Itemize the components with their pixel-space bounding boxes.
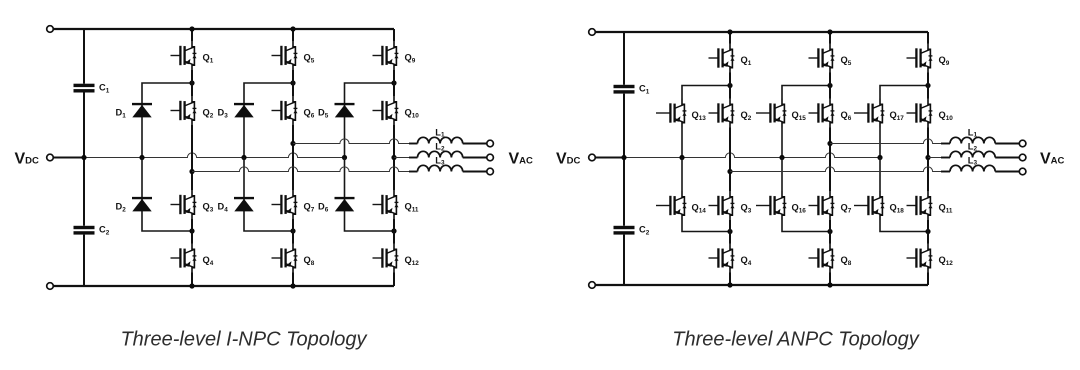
junction clamp Q18 at leg 3 (right) [925, 229, 930, 234]
wire phase C (left) [394, 157, 409, 159]
svg-text:Q8: Q8 [841, 255, 852, 267]
inductor L2 (left) [418, 142, 463, 158]
wire VDC terminal to capacitor string (left) [53, 157, 84, 159]
node DC+ terminal (left) [47, 26, 54, 33]
transistor Q15 [756, 99, 806, 128]
node AC terminal (right) [1019, 140, 1026, 147]
wire leg 3 segment (left) [393, 70, 395, 96]
wire (left) [409, 143, 418, 145]
wire capacitor branch upper (right) [623, 32, 625, 85]
junction clamp Q14 at leg 1 (right) [727, 229, 732, 234]
junction leg 2 bottom rail (right) [827, 282, 832, 287]
wire neutral midpoint bus (left) [84, 153, 345, 158]
wire (right) [941, 143, 950, 145]
capacitor C2 (right) [614, 225, 650, 237]
wire clamp Q14 from midpoint (right) [681, 158, 683, 192]
wire leg 1 segment (left) [191, 29, 193, 41]
wire (right) [995, 157, 1019, 159]
transistor Q14 [656, 191, 706, 220]
junction clamp D5 at leg 3 (left) [391, 80, 396, 85]
transistor Q8 [272, 244, 315, 273]
transistor Q4 [709, 244, 752, 273]
wire leg 3 segment (left) [393, 219, 395, 244]
inductor L1 (left) [418, 128, 463, 144]
wire clamp Q15 to midpoint (right) [781, 128, 783, 158]
svg-text:C1: C1 [639, 84, 650, 96]
junction phase A output at leg 1 (right) [727, 169, 732, 174]
svg-text:Q10: Q10 [405, 108, 420, 120]
svg-text:Q16: Q16 [792, 203, 807, 215]
svg-text:Q6: Q6 [304, 108, 315, 120]
junction clamp Q17 at leg 3 (right) [925, 83, 930, 88]
transistor Q17 [854, 99, 904, 128]
svg-text:L3: L3 [435, 156, 445, 167]
diode D6 [318, 198, 355, 213]
node DC+ terminal (right) [589, 29, 596, 36]
transistor Q1 [709, 44, 752, 73]
junction clamp D6 at leg 3 (left) [391, 228, 396, 233]
node DC- terminal (right) [589, 282, 596, 289]
svg-text:Q4: Q4 [741, 255, 752, 267]
svg-text:VDC: VDC [15, 150, 40, 167]
svg-text:Q12: Q12 [939, 255, 954, 267]
wire clamp diode D1 branch to upper node (leg 1 left) [142, 83, 192, 158]
node DC- terminal (left) [47, 283, 54, 290]
wire clamp Q15 branch to upper node (leg 2 right) [782, 86, 830, 99]
transistor Q9 [907, 44, 950, 73]
wire capacitor branch lower (left) [83, 235, 85, 286]
svg-text:Q4: Q4 [203, 255, 214, 267]
node AC terminal (left) [487, 168, 494, 175]
junction clamp column at midpoint (right) [679, 155, 684, 160]
transistor Q7 [272, 190, 315, 219]
transistor Q7 [809, 191, 852, 220]
transistor Q4 [171, 244, 214, 273]
wire leg 1 segment (left) [191, 125, 193, 190]
svg-text:Three-level I-NPC Topology: Three-level I-NPC Topology [120, 329, 367, 351]
svg-text:L3: L3 [968, 156, 978, 167]
wire leg 2 segment (left) [292, 219, 294, 244]
junction leg 1 top rail (right) [727, 29, 732, 34]
wire leg 3 segment (right) [927, 73, 929, 99]
transistor Q6 [809, 99, 852, 128]
wire phase B (left) [293, 139, 409, 144]
svg-text:Q7: Q7 [304, 202, 315, 214]
wire leg 1 segment (right) [729, 220, 731, 244]
svg-text:Q3: Q3 [203, 202, 214, 214]
wire leg 3 segment (left) [393, 29, 395, 41]
wire clamp diode D3 branch to upper node (leg 2 left) [244, 83, 293, 158]
svg-text:D2: D2 [116, 202, 127, 214]
wire capacitor branch middle (right) [623, 94, 625, 226]
wire leg 2 segment (left) [292, 70, 294, 96]
wire leg 3 segment (left) [393, 273, 395, 287]
node AC terminal (left) [487, 140, 494, 147]
wire neutral midpoint bus (right) [624, 153, 880, 158]
wire capacitor branch lower (right) [623, 235, 625, 285]
wire (left) [463, 143, 487, 145]
wire clamp diode D5 branch to upper node (leg 3 left) [345, 83, 395, 158]
junction phase C output at leg 3 (right) [925, 155, 930, 160]
junction leg 1 bottom rail (right) [727, 282, 732, 287]
node VDC terminal (right) [589, 154, 596, 161]
svg-text:D6: D6 [318, 202, 329, 214]
svg-text:Q7: Q7 [841, 203, 852, 215]
wire phase A (right) [730, 167, 941, 172]
wire clamp Q13 branch to upper node (leg 1 right) [682, 86, 730, 99]
wire leg 2 segment (left) [292, 273, 294, 287]
diode D1 [116, 104, 153, 119]
svg-text:Q9: Q9 [939, 55, 950, 67]
svg-text:Q13: Q13 [692, 110, 707, 122]
junction clamp D3 at midpoint (left) [241, 155, 246, 160]
transistor Q2 [709, 99, 752, 128]
wire leg 3 segment (right) [927, 220, 929, 244]
wire (left) [463, 171, 487, 173]
wire clamp Q17 to midpoint (right) [879, 128, 881, 158]
transistor Q3 [171, 190, 214, 219]
diode D4 [218, 198, 255, 213]
svg-text:VAC: VAC [509, 150, 534, 167]
inductor L1 (right) [950, 128, 995, 144]
wire top DC rail (left) [53, 28, 394, 30]
junction leg 1 bottom rail (left) [189, 283, 194, 288]
wire clamp Q18 from midpoint (right) [879, 158, 881, 192]
svg-text:VDC: VDC [556, 150, 581, 167]
wire bottom DC rail (right) [595, 284, 928, 286]
wire phase B (right) [830, 139, 941, 144]
svg-text:L1: L1 [435, 128, 445, 139]
wire (right) [941, 171, 950, 173]
svg-text:Three-level ANPC Topology: Three-level ANPC Topology [672, 329, 919, 351]
transistor Q8 [809, 244, 852, 273]
node AC terminal (left) [487, 154, 494, 161]
svg-text:L2: L2 [435, 142, 445, 153]
svg-text:D1: D1 [116, 108, 127, 120]
svg-text:C1: C1 [99, 83, 110, 95]
junction clamp D1 at midpoint (left) [139, 155, 144, 160]
junction clamp D4 at leg 2 (left) [290, 228, 295, 233]
junction clamp Q15 at leg 2 (right) [827, 83, 832, 88]
svg-text:Q1: Q1 [203, 53, 214, 65]
transistor Q9 [373, 41, 416, 70]
wire leg 1 segment (left) [191, 219, 193, 244]
capacitor C1 (left) [74, 83, 110, 95]
wire (right) [995, 143, 1019, 145]
junction leg 2 bottom rail (left) [290, 283, 295, 288]
wire leg 3 segment (right) [927, 273, 929, 286]
transistor Q18 [854, 191, 904, 220]
capacitor C2 (left) [74, 225, 110, 237]
inductor L2 (right) [950, 142, 995, 158]
svg-text:Q14: Q14 [692, 203, 707, 215]
wire (left) [409, 171, 418, 173]
svg-text:Q15: Q15 [792, 110, 807, 122]
node VDC terminal (left) [47, 154, 54, 161]
wire leg 2 segment (right) [829, 273, 831, 286]
wire leg 3 segment (left) [393, 125, 395, 190]
wire leg 3 segment (right) [927, 128, 929, 192]
wire clamp Q14 branch to lower node (leg 1 right) [682, 220, 730, 232]
wire (right) [941, 157, 950, 159]
wire leg 2 segment (right) [829, 128, 831, 192]
transistor Q13 [656, 99, 706, 128]
svg-text:Q11: Q11 [405, 202, 419, 214]
junction clamp D5 at midpoint (left) [342, 155, 347, 160]
transistor Q11 [373, 190, 419, 219]
wire leg 1 segment (right) [729, 273, 731, 286]
wire bottom DC rail (left) [53, 285, 394, 287]
svg-text:Q8: Q8 [304, 255, 315, 267]
junction clamp D3 at leg 2 (left) [290, 80, 295, 85]
transistor Q12 [373, 244, 420, 273]
junction clamp Q16 at leg 2 (right) [827, 229, 832, 234]
wire clamp Q17 branch to upper node (leg 3 right) [880, 86, 928, 99]
svg-text:D5: D5 [318, 108, 329, 120]
junction clamp column at midpoint (right) [877, 155, 882, 160]
transistor Q12 [907, 244, 954, 273]
wire clamp Q13 to midpoint (right) [681, 128, 683, 158]
svg-text:D4: D4 [218, 202, 229, 214]
wire (right) [995, 171, 1019, 173]
junction leg 2 top rail (left) [290, 26, 295, 31]
transistor Q11 [907, 191, 953, 220]
wire leg 2 segment (right) [829, 220, 831, 244]
wire clamp diode D2 branch to lower node (leg 1 left) [142, 158, 192, 232]
wire clamp Q16 branch to lower node (leg 2 right) [782, 220, 830, 232]
wire capacitor branch middle (left) [83, 93, 85, 226]
wire clamp diode D6 branch to lower node (leg 3 left) [345, 158, 395, 232]
svg-text:Q1: Q1 [741, 55, 752, 67]
wire leg 2 segment (left) [292, 29, 294, 41]
node AC terminal (right) [1019, 154, 1026, 161]
transistor Q16 [756, 191, 806, 220]
transistor Q3 [709, 191, 752, 220]
junction midpoint x capacitor string (right) [621, 155, 626, 160]
junction phase A output at leg 1 (left) [189, 169, 194, 174]
wire leg 2 segment (right) [829, 32, 831, 44]
junction phase B output at leg 2 (right) [827, 141, 832, 146]
svg-text:Q5: Q5 [841, 55, 852, 67]
svg-text:Q2: Q2 [741, 110, 752, 122]
diode D5 [318, 104, 355, 119]
junction leg 2 top rail (right) [827, 29, 832, 34]
wire capacitor branch upper (left) [83, 29, 85, 84]
diode D3 [218, 104, 255, 119]
inductor L3 (right) [950, 156, 995, 172]
svg-text:Q10: Q10 [939, 110, 954, 122]
wire leg 1 segment (right) [729, 32, 731, 44]
transistor Q6 [272, 96, 315, 125]
junction leg 1 top rail (left) [189, 26, 194, 31]
svg-text:C2: C2 [99, 225, 110, 237]
svg-text:Q17: Q17 [890, 110, 905, 122]
svg-text:Q3: Q3 [741, 203, 752, 215]
transistor Q10 [373, 96, 420, 125]
svg-text:Q2: Q2 [203, 108, 214, 120]
wire clamp Q18 branch to lower node (leg 3 right) [880, 220, 928, 232]
wire leg 1 segment (left) [191, 273, 193, 287]
inductor L3 (left) [418, 156, 463, 172]
wire leg 1 segment (right) [729, 73, 731, 99]
svg-text:L2: L2 [968, 142, 978, 153]
wire (left) [409, 157, 418, 159]
node AC terminal (right) [1019, 168, 1026, 175]
svg-text:Q18: Q18 [890, 203, 905, 215]
wire phase A (left) [192, 167, 409, 172]
junction phase B output at leg 2 (left) [290, 141, 295, 146]
svg-text:C2: C2 [639, 225, 650, 237]
svg-text:Q9: Q9 [405, 53, 416, 65]
svg-text:Q5: Q5 [304, 53, 315, 65]
junction clamp D2 at leg 1 (left) [189, 228, 194, 233]
wire VDC terminal to capacitor string (right) [595, 157, 624, 159]
svg-text:Q11: Q11 [939, 203, 953, 215]
junction midpoint x capacitor string (left) [81, 155, 86, 160]
junction clamp Q13 at leg 1 (right) [727, 83, 732, 88]
wire clamp diode D4 branch to lower node (leg 2 left) [244, 158, 293, 232]
svg-text:Q12: Q12 [405, 255, 420, 267]
wire top DC rail (right) [595, 31, 928, 33]
wire leg 2 segment (right) [829, 73, 831, 99]
wire leg 1 segment (right) [729, 128, 731, 192]
junction clamp column at midpoint (right) [779, 155, 784, 160]
transistor Q10 [907, 99, 954, 128]
junction clamp D1 at leg 1 (left) [189, 80, 194, 85]
wire phase C (right) [928, 157, 941, 159]
wire leg 3 segment (right) [927, 32, 929, 44]
wire clamp Q16 from midpoint (right) [781, 158, 783, 192]
transistor Q2 [171, 96, 214, 125]
transistor Q1 [171, 41, 214, 70]
svg-text:D3: D3 [218, 108, 229, 120]
svg-text:VAC: VAC [1040, 150, 1065, 167]
capacitor C1 (right) [614, 84, 650, 96]
diode D2 [116, 198, 153, 213]
transistor Q5 [809, 44, 852, 73]
wire leg 2 segment (left) [292, 125, 294, 190]
junction phase C output at leg 3 (left) [391, 155, 396, 160]
svg-text:L1: L1 [968, 128, 978, 139]
svg-text:Q6: Q6 [841, 110, 852, 122]
wire leg 1 segment (left) [191, 70, 193, 96]
transistor Q5 [272, 41, 315, 70]
wire (left) [463, 157, 487, 159]
